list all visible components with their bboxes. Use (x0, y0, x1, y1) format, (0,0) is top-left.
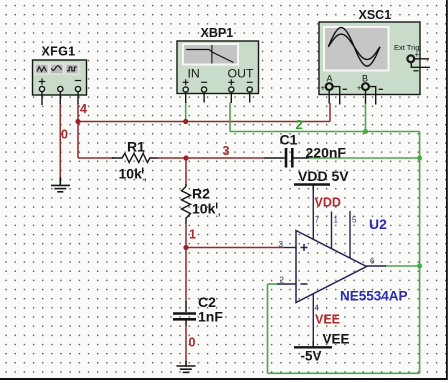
svg-text:,: , (144, 172, 147, 182)
svg-text:VDD 5V: VDD 5V (298, 168, 349, 184)
svg-text:VEE: VEE (315, 313, 340, 327)
svg-text:-5V: -5V (301, 349, 322, 364)
svg-text:10k: 10k (119, 166, 143, 182)
instrument XFG1 function generator (33, 60, 87, 95)
svg-text:XBP1: XBP1 (201, 26, 234, 40)
svg-text:7: 7 (315, 216, 320, 225)
wire net2 feedback left vertical (267, 284, 269, 373)
svg-text:220nF: 220nF (306, 145, 347, 161)
op-amp plus sign (301, 244, 308, 251)
ground at C2 (177, 361, 196, 372)
wire net1 down to C2 (185, 248, 187, 302)
svg-text:2: 2 (296, 117, 303, 132)
svg-text:+: + (321, 84, 326, 93)
svg-text:+: + (357, 84, 362, 93)
junction net2 C1 (417, 156, 422, 161)
svg-text:VDD: VDD (315, 196, 341, 210)
svg-text:A: A (327, 74, 333, 84)
wire net2 horizontal to right (230, 131, 420, 133)
XBP1 terminal IN- (202, 87, 207, 103)
svg-text:3: 3 (279, 240, 284, 249)
wire net1 R2 bottom to node (185, 223, 187, 248)
XSC1 channel A terminal (321, 83, 348, 104)
svg-text:B: B (362, 74, 368, 84)
XFG1 terminal minus (75, 86, 80, 104)
wire net3 R2 top segment (185, 158, 187, 185)
wire net1 to opamp pin3 (186, 247, 284, 249)
svg-text:6: 6 (370, 257, 375, 266)
svg-text:,: , (218, 207, 221, 217)
svg-text:1nF: 1nF (198, 309, 223, 325)
svg-text:R2: R2 (192, 186, 210, 202)
svg-text:4: 4 (315, 304, 320, 313)
svg-text:R1: R1 (127, 139, 145, 155)
XFG1 button triangle (50, 64, 63, 74)
op-amp pin 3 stub (279, 240, 297, 249)
instrument XSC1 oscilloscope (319, 22, 420, 95)
op-amp pin 5 stub (350, 211, 357, 258)
XSC1 screen (324, 27, 389, 71)
canvas right border (446, 0, 448, 380)
canvas bottom border (0, 378, 448, 383)
op-amp U2 triangle (296, 231, 367, 303)
wire net4 horizontal XFG1 to XSC1 A (78, 121, 330, 123)
wire net6 opamp output green (385, 265, 420, 267)
svg-text:2: 2 (280, 276, 285, 285)
wire net2 XSC1 B+ down (365, 103, 367, 132)
instrument XBP1 bode plotter (177, 41, 259, 94)
XSC1 ext trig terminal (407, 50, 430, 71)
svg-text:XFG1: XFG1 (42, 45, 76, 59)
capacitor C2 (173, 301, 196, 326)
XBP1 OUT plus mark (228, 79, 234, 85)
wire net4 vertical to XSC1 A+ (329, 103, 331, 122)
wire net2 feedback to pin2 (268, 283, 279, 285)
wire net2 right vertical (419, 132, 421, 374)
junction node1 (183, 245, 188, 250)
svg-text:VEE: VEE (323, 332, 350, 347)
svg-text:1: 1 (334, 216, 339, 225)
op-amp pin 6 output stub (367, 257, 387, 267)
XBP1 screen (183, 44, 238, 65)
svg-text:OUT: OUT (228, 67, 254, 81)
wire net2 XBP1 OUT+ down (229, 103, 231, 132)
capacitor C1 (264, 148, 309, 168)
ground at XFG1 (51, 177, 70, 192)
resistor R2 (182, 184, 191, 224)
XBP1 terminal OUT+ (229, 87, 234, 103)
junction net2 output (417, 264, 422, 269)
svg-text:NE5534AP: NE5534AP (340, 289, 408, 304)
op-amp pin 4 wire to VEE (313, 294, 319, 346)
op-amp minus sign (301, 283, 308, 285)
XBP1 terminal IN+ (183, 87, 188, 103)
svg-text:1: 1 (189, 228, 196, 242)
wire net0 XFG1 common to ground (59, 103, 61, 178)
XBP1 terminal OUT- (247, 87, 252, 103)
wire net0 C2 to ground (185, 325, 187, 362)
svg-text:IN: IN (188, 67, 200, 81)
svg-text:3: 3 (223, 144, 230, 158)
XBP1 IN minus mark (201, 81, 207, 83)
XBP1 IN plus mark (183, 79, 189, 85)
XFG1 button sine (35, 64, 48, 74)
XSC1 channel B terminal (357, 83, 383, 104)
XFG1 plus mark (39, 78, 45, 84)
XFG1 terminal common (58, 86, 63, 104)
op-amp pin 2 stub (277, 276, 296, 285)
svg-text:U2: U2 (369, 216, 387, 232)
junction node4-net2 IN+ (183, 119, 188, 124)
svg-text:0: 0 (189, 336, 196, 350)
svg-text:5: 5 (352, 216, 357, 225)
svg-text:10k: 10k (192, 201, 216, 217)
op-amp pin 1 stub (332, 212, 339, 249)
VEE power bar (294, 341, 332, 347)
XFG1 button square (66, 64, 79, 74)
svg-text:C1: C1 (280, 132, 298, 148)
wire net2 feedback bottom (268, 372, 420, 374)
svg-text:XSC1: XSC1 (359, 8, 392, 22)
svg-text:4: 4 (80, 102, 87, 116)
junction node3 (183, 155, 188, 160)
wire net2 XBP1 IN+ green (185, 103, 187, 122)
op-amp pin 7 wire from VDD (313, 186, 320, 240)
junction node4 at XFG1 (75, 119, 80, 124)
XFG1 terminal plus (39, 86, 44, 105)
wire net4 vertical from XFG1 minus (77, 104, 79, 159)
junction net2 B+ (363, 129, 368, 134)
wire net3 R1 left segment (78, 157, 114, 159)
wire net2 C1 right green (308, 157, 420, 159)
XBP1 OUT minus mark (247, 81, 253, 83)
XFG1 minus mark (75, 80, 81, 82)
svg-text:+: + (415, 50, 420, 59)
resistor R1 (112, 154, 158, 163)
wire net3 R1 to C1 (157, 157, 264, 159)
svg-text:0: 0 (61, 128, 68, 142)
VDD power bar (294, 185, 330, 191)
